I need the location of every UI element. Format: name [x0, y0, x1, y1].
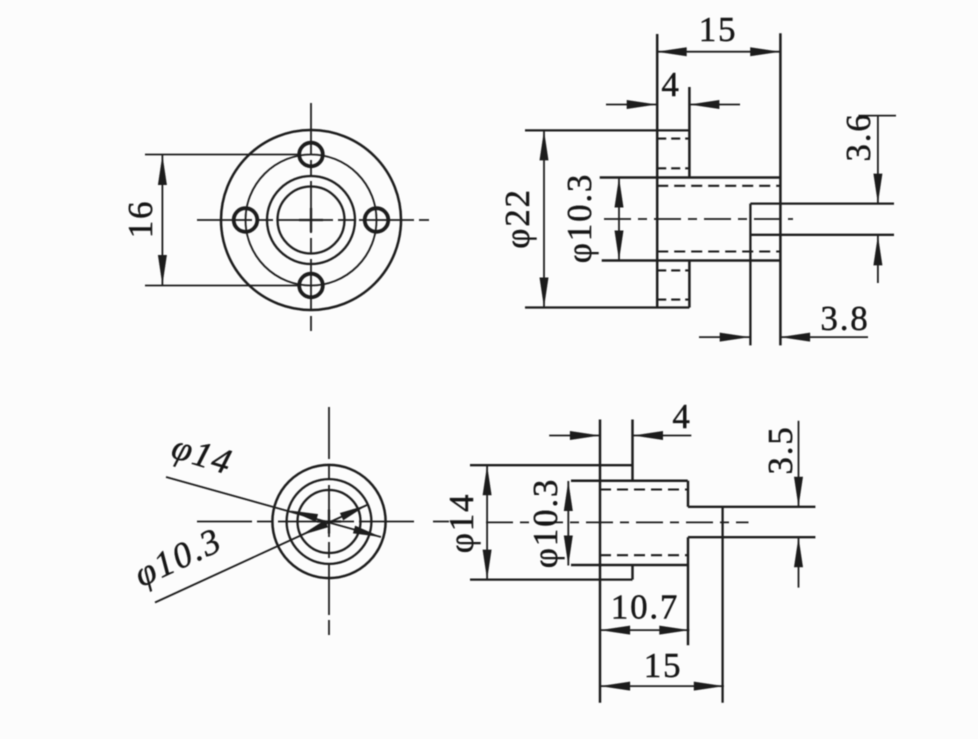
collar right face lower — [631, 565, 634, 580]
body top edge + φ10.3 top extension — [571, 479, 688, 482]
collar top edge + φ14 top extension — [470, 464, 633, 466]
svg-text:4: 4 — [661, 65, 680, 104]
dim 4 top: arrow pointing left — [689, 100, 719, 109]
dim 4 bottom: left tail — [549, 435, 600, 437]
collar left face + extensions — [599, 420, 602, 703]
svg-text:3.5: 3.5 — [761, 425, 800, 474]
bore hidden line lower — [600, 554, 688, 556]
body bottom edge + φ10.3 bottom extension — [571, 564, 688, 567]
flange right face upper — [688, 87, 691, 178]
lead screw bottom line — [750, 234, 894, 236]
collar right face upper — [631, 420, 634, 481]
dim φ10.3 bottom view: arrow up — [564, 481, 573, 511]
svg-text:3.6: 3.6 — [839, 112, 878, 161]
svg-text:φ14: φ14 — [167, 426, 237, 482]
dim 16: arrow up — [158, 155, 167, 185]
flange right face lower — [688, 261, 691, 308]
bore circle φ8 — [278, 187, 345, 254]
svg-text:15: 15 — [699, 10, 738, 49]
bore circle φ8 — [298, 490, 361, 553]
bolt hole bottom — [299, 274, 323, 298]
dim 3.8: right tail — [780, 336, 868, 338]
dim 3.8: arrow pointing right — [720, 333, 750, 342]
flange left face — [656, 34, 659, 308]
svg-text:4: 4 — [672, 397, 691, 436]
dim φ10.3 top view: dimension line — [618, 178, 620, 261]
dim φ22: dimension line — [543, 130, 545, 307]
svg-text:10.7: 10.7 — [611, 588, 679, 627]
dim 3.6: lower tail — [877, 235, 879, 283]
leader φ10.3 arrow up-right — [340, 505, 367, 520]
bore hidden line upper — [600, 488, 688, 490]
dim 15 bottom: arrow right — [694, 682, 724, 691]
svg-text:3.8: 3.8 — [820, 299, 869, 338]
svg-text:φ10.3: φ10.3 — [560, 173, 599, 263]
leader φ14 arrow down-right — [353, 526, 381, 537]
body circle φ10.3 — [287, 479, 372, 564]
dim 3.5: lower tail — [798, 537, 800, 587]
horizontal centerline extra dash — [433, 521, 449, 523]
shaft bottom line — [688, 536, 815, 538]
dim 3.8: arrow pointing left — [780, 333, 810, 342]
hub right face + extensions — [779, 33, 782, 345]
dim 4 top: arrow pointing right — [627, 100, 657, 109]
bore hidden line lower — [657, 250, 780, 252]
flange bottom edge + φ22 bottom extension — [525, 306, 689, 308]
hub bottom edge + φ10.3 bottom extension — [602, 259, 781, 262]
dim 10.7: arrow right — [659, 626, 689, 635]
center cross — [317, 510, 341, 534]
dim 3.8: left tail — [699, 336, 750, 338]
dim φ10.3 top view: arrow down — [615, 231, 624, 261]
dim 4 bottom: arrow pointing left — [633, 431, 663, 440]
dim 10.7: arrow left — [600, 626, 630, 635]
dim 3.6: arrow up — [873, 235, 882, 265]
dim 4 bottom: right tail — [633, 435, 691, 437]
dim 4 top: dimension line right tail — [689, 104, 740, 106]
dim 3.6: upper tail with end tick — [859, 115, 897, 117]
centerline — [486, 521, 749, 523]
dim 15 top: arrow right — [750, 47, 780, 56]
bolt hole top hidden line upper — [657, 138, 689, 140]
bore hidden line upper — [657, 185, 780, 187]
dim 16: extension line top — [145, 154, 300, 156]
bolt hole top hidden line lower — [657, 167, 689, 169]
horizontal centerline — [197, 219, 429, 221]
lead screw end + 3.8 left extension — [749, 204, 751, 346]
dim φ10.3 top view: arrow up — [615, 178, 624, 208]
centerline — [604, 218, 793, 220]
svg-text:φ10.3: φ10.3 — [526, 478, 565, 568]
svg-text:φ14: φ14 — [442, 493, 481, 554]
horizontal centerline — [197, 521, 416, 523]
shaft top line — [688, 506, 815, 508]
lead screw top line — [750, 202, 894, 204]
dim 4 bottom: arrow pointing right — [570, 431, 600, 440]
dim φ10.3 bottom view: dimension line — [567, 481, 569, 566]
outer flange circle φ22 — [221, 130, 401, 310]
svg-text:15: 15 — [644, 646, 683, 685]
dim φ14 right: arrow up — [483, 465, 492, 495]
flange top edge + φ22 top extension — [525, 129, 689, 131]
dim 15 bottom: dimension line — [600, 685, 724, 687]
outer circle φ14 — [272, 465, 385, 578]
dim 3.5: upper tail — [798, 421, 800, 507]
bolt circle φ16 — [246, 155, 377, 286]
hub top edge + φ10.3 top extension — [600, 176, 781, 179]
svg-text:φ22: φ22 — [498, 188, 537, 249]
vertical centerline — [328, 407, 330, 635]
dim 3.5: arrow up — [794, 537, 803, 567]
leader φ14 line — [166, 477, 381, 537]
svg-text:16: 16 — [121, 200, 160, 239]
leader φ10.3 arrow down-left — [301, 520, 328, 535]
svg-text:φ10.3: φ10.3 — [128, 520, 228, 595]
dim 15 top: dimension line — [657, 51, 781, 53]
body right face upper — [687, 481, 690, 507]
dim φ22: arrow up — [540, 130, 549, 160]
bolt hole top — [299, 143, 323, 167]
bolt hole bottom hidden line upper — [657, 269, 689, 271]
dim 4 top: dimension line left tail — [606, 104, 657, 106]
bolt hole right — [365, 208, 389, 232]
dim 16: arrow down — [158, 255, 167, 285]
center cross — [299, 208, 323, 232]
dim 10.7: dimension line — [600, 629, 689, 631]
hub circle φ10.3 — [267, 176, 355, 264]
dim φ14 right: dimension line — [486, 465, 488, 579]
leader φ14 arrow up-left — [290, 511, 318, 522]
dim 15 top: arrow left — [657, 47, 687, 56]
body right face lower + 10.7 extension — [687, 537, 690, 645]
dim φ14 right: arrow down — [483, 550, 492, 580]
dim φ10.3 bottom view: arrow down — [564, 536, 573, 566]
shaft end line + 15 right extension — [721, 507, 723, 703]
dim 16: extension line bottom — [145, 285, 300, 287]
dim 3.6: arrow down — [873, 174, 882, 204]
dim 3.5: arrow down — [794, 477, 803, 507]
dim 15 bottom: arrow left — [600, 682, 630, 691]
bolt hole left — [234, 208, 258, 232]
collar bottom edge + φ14 bottom extension — [470, 578, 633, 580]
vertical centerline — [310, 103, 312, 331]
dim φ22: arrow down — [540, 278, 549, 308]
dim 16: dimension line — [161, 155, 163, 285]
leader φ10.3 line — [155, 505, 367, 603]
bolt hole bottom hidden line lower — [657, 299, 689, 301]
